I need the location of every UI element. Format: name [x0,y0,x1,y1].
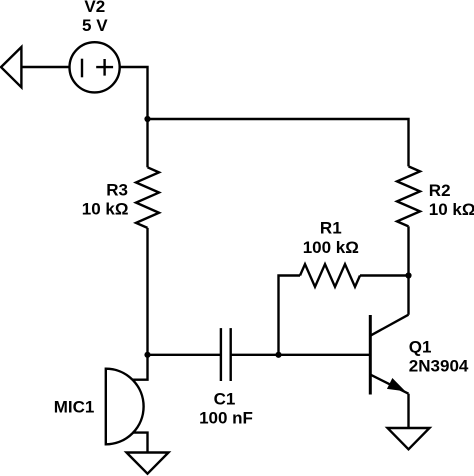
svg-text:100 kΩ: 100 kΩ [303,238,359,257]
svg-text:R1: R1 [320,218,342,237]
svg-text:MIC1: MIC1 [54,398,95,417]
svg-text:100 nF: 100 nF [199,409,253,428]
svg-text:Q1: Q1 [409,337,432,356]
svg-text:5 V: 5 V [82,16,108,35]
svg-text:C1: C1 [214,389,236,408]
svg-text:10 kΩ: 10 kΩ [82,199,129,218]
svg-text:R3: R3 [106,181,128,200]
svg-text:2N3904: 2N3904 [409,356,469,375]
svg-text:R2: R2 [429,181,451,200]
svg-text:10 kΩ: 10 kΩ [429,200,474,219]
svg-text:V2: V2 [84,0,105,16]
